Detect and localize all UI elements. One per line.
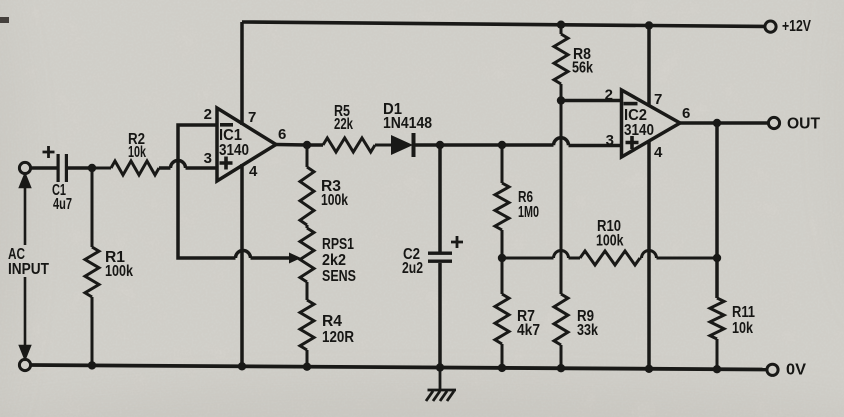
0V rail junction dots <box>88 361 96 369</box>
wire C1 to node A <box>68 166 92 170</box>
capacitor C2 <box>428 145 463 368</box>
svg-text:7: 7 <box>248 109 256 126</box>
svg-text:1N4148: 1N4148 <box>383 115 432 132</box>
resistor R9 <box>554 101 568 369</box>
wire IC1 pin2 feedback to RPS1 wiper <box>178 125 291 258</box>
wire IC1 pin7 to +12V rail <box>240 22 244 125</box>
wire reference node to IC2 pin2 <box>561 99 622 103</box>
op-amp IC1 <box>217 108 276 181</box>
wire input to C1 <box>31 166 57 170</box>
svg-text:+12V: +12V <box>782 18 812 35</box>
resistor R8 <box>554 25 568 100</box>
resistor R10 with hops <box>502 251 717 265</box>
resistor R7 <box>495 258 509 368</box>
svg-text:22k: 22k <box>334 116 353 133</box>
svg-text:SENS: SENS <box>322 268 356 285</box>
resistor R3 <box>300 145 314 225</box>
svg-text:10k: 10k <box>732 320 753 337</box>
node pin7 rail junction <box>645 21 653 29</box>
svg-text:2k2: 2k2 <box>322 252 346 269</box>
+12V supply rail <box>242 22 765 27</box>
resistor R4 <box>300 300 314 367</box>
wire R2 to IC1 pin3 with hop <box>159 161 217 168</box>
svg-text:7: 7 <box>654 91 662 108</box>
input terminal top <box>19 162 30 173</box>
node output junction <box>713 119 721 127</box>
svg-text:10k: 10k <box>128 144 146 161</box>
svg-text:3: 3 <box>204 150 212 167</box>
node R8/pin2 junction <box>557 96 565 104</box>
diode D1 <box>391 133 440 157</box>
svg-text:4: 4 <box>654 144 663 161</box>
potentiometer RPS1 <box>300 225 314 300</box>
RPS1 wiper arrow <box>289 253 301 264</box>
svg-text:100k: 100k <box>596 233 624 250</box>
svg-text:3140: 3140 <box>624 122 654 139</box>
OUT terminal <box>768 117 779 128</box>
svg-text:RPS1: RPS1 <box>322 236 354 253</box>
svg-text:R4: R4 <box>322 313 342 330</box>
+12V terminal <box>765 21 776 32</box>
wire IC2 output to OUT <box>680 121 768 125</box>
svg-text:R11: R11 <box>732 304 755 321</box>
svg-text:3140: 3140 <box>219 142 249 159</box>
wire IC2 pin7 to +12V rail <box>647 26 651 106</box>
node R6/R7/R10 junction <box>498 254 506 262</box>
svg-text:0V: 0V <box>786 362 807 379</box>
resistor R5 <box>323 138 391 152</box>
input terminal bottom <box>19 359 30 370</box>
node R8 top rail junction <box>557 21 565 29</box>
node R6 junction <box>498 141 506 149</box>
wire IC2 pin4 to 0V rail <box>647 141 651 369</box>
svg-text:4: 4 <box>249 163 258 180</box>
resistor R6 <box>495 145 509 258</box>
resistor R2 <box>92 161 159 175</box>
AC INPUT arrow line <box>20 175 30 358</box>
svg-text:6: 6 <box>278 126 286 143</box>
capacitor C1 <box>43 146 69 182</box>
svg-text:4k7: 4k7 <box>517 322 540 339</box>
wire output down / resistor R11 <box>710 123 724 369</box>
wire IC1 output <box>276 143 323 147</box>
svg-text:1M0: 1M0 <box>518 204 539 221</box>
op-amp IC2 <box>622 90 681 157</box>
svg-text:OUT: OUT <box>787 116 821 133</box>
ground <box>426 368 456 402</box>
svg-text:56k: 56k <box>572 60 593 77</box>
svg-text:120R: 120R <box>322 329 354 346</box>
0V terminal <box>767 364 778 375</box>
node IC1 output junction <box>303 141 311 149</box>
resistor R1 <box>85 168 99 365</box>
wire R6 node to IC2 pin3 with hop <box>502 138 622 146</box>
wire IC1 pin4 to 0V rail <box>240 164 244 366</box>
svg-text:INPUT: INPUT <box>8 261 49 278</box>
svg-text:6: 6 <box>682 105 690 122</box>
svg-text:100k: 100k <box>321 192 348 209</box>
svg-text:3: 3 <box>606 132 614 149</box>
svg-text:33k: 33k <box>577 322 598 339</box>
scan edge mark <box>0 17 9 23</box>
svg-text:2: 2 <box>605 87 613 104</box>
svg-text:2: 2 <box>204 106 212 123</box>
svg-text:100k: 100k <box>105 263 133 280</box>
node A junction <box>88 164 96 172</box>
node C2 junction <box>436 141 444 149</box>
svg-text:2u2: 2u2 <box>402 260 423 277</box>
node R10/out junction <box>713 254 721 262</box>
wire D1 to R6 node <box>440 143 502 147</box>
0V rail <box>31 365 766 370</box>
svg-text:4u7: 4u7 <box>53 196 72 213</box>
